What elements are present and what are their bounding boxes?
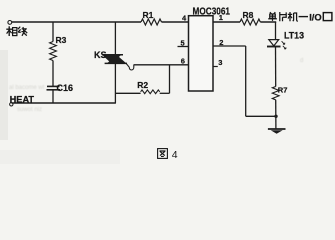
svg-text:MOC3061: MOC3061 bbox=[193, 6, 231, 18]
svg-text:LT13: LT13 bbox=[284, 30, 304, 40]
svg-text:R2: R2 bbox=[137, 80, 148, 90]
svg-text:R1: R1 bbox=[143, 10, 154, 20]
svg-text:KS: KS bbox=[94, 50, 107, 60]
svg-text:R7: R7 bbox=[278, 85, 288, 94]
svg-text:I/O: I/O bbox=[309, 12, 322, 23]
svg-text:6: 6 bbox=[181, 57, 185, 66]
svg-text:suwot niz: suwot niz bbox=[17, 107, 42, 113]
svg-text:HEAT: HEAT bbox=[10, 95, 35, 105]
svg-text:1: 1 bbox=[219, 13, 223, 22]
svg-text:R3: R3 bbox=[56, 35, 67, 45]
svg-text:2: 2 bbox=[219, 38, 223, 47]
svg-text:C16: C16 bbox=[57, 83, 74, 93]
svg-text:3: 3 bbox=[218, 58, 222, 67]
svg-text:d: d bbox=[300, 58, 303, 64]
svg-text:R8: R8 bbox=[243, 10, 254, 20]
svg-text:al bacome wt: al bacome wt bbox=[9, 85, 45, 91]
svg-text:5: 5 bbox=[181, 39, 185, 48]
svg-text:4: 4 bbox=[172, 149, 178, 161]
